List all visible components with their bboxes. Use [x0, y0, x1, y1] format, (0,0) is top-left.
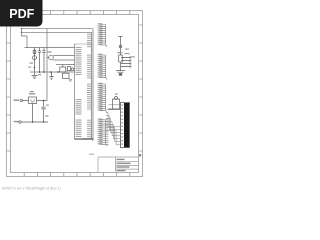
svg-text:PDF: PDF — [9, 7, 34, 21]
svg-text:910977-2 rev 1 TSK2DPage5 of (: 910977-2 rev 1 TSK2DPage5 of (Doc 1) — [2, 186, 61, 190]
